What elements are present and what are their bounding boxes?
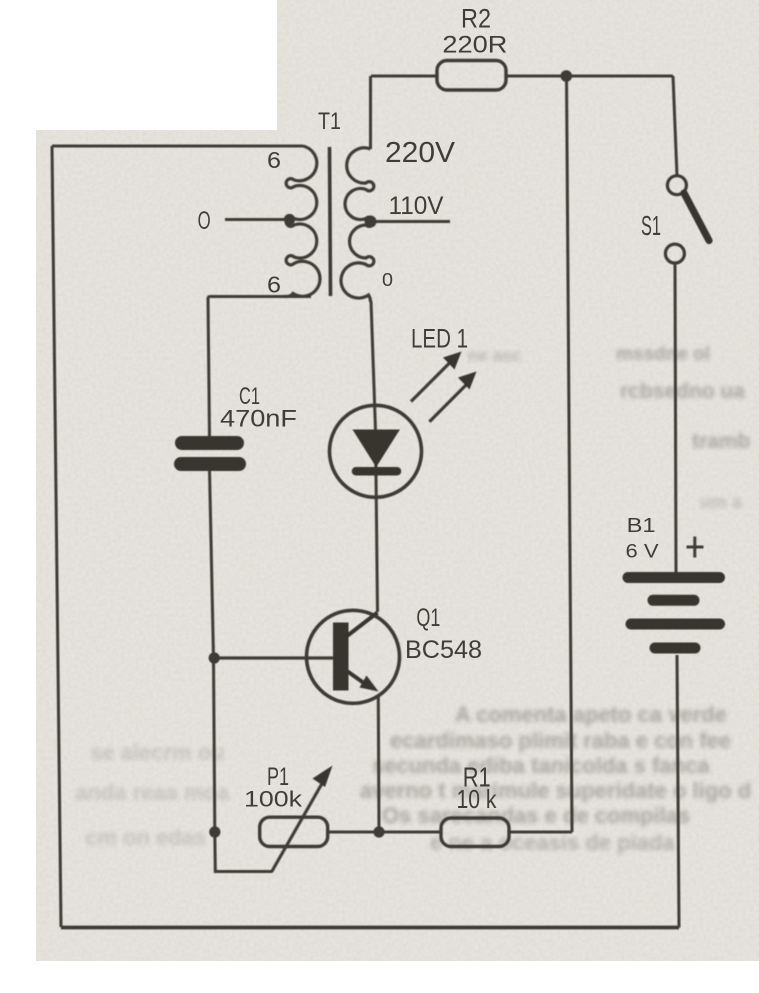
svg-text:6: 6 — [267, 272, 281, 298]
transistor Q1 collector stroke — [347, 613, 378, 637]
wire: P1 wiper return loop — [215, 832, 272, 872]
wire: outer loop left side — [52, 146, 61, 927]
switch S1 lever — [684, 193, 709, 241]
wire: node B to R1 left lead — [379, 831, 441, 834]
battery B1 plate 1 (long +) — [628, 572, 720, 583]
svg-text:T1: T1 — [318, 108, 341, 135]
resistor R1 body — [441, 818, 509, 847]
svg-text:Q1: Q1 — [416, 604, 440, 632]
svg-text:O: O — [198, 207, 211, 235]
transistor Q1 emitter stroke with arrow — [347, 671, 379, 692]
svg-text:A comenta apeto ca verde: A comenta apeto ca verde — [455, 702, 727, 727]
transformer T1 primary winding (left) — [284, 146, 320, 297]
svg-text:100k: 100k — [244, 787, 303, 812]
wire: T1 secondary bottom (0 tap) down through LED to Q1 collector — [371, 301, 378, 612]
svg-text:470nF: 470nF — [220, 406, 297, 433]
junction: base node dot — [209, 652, 220, 663]
wire: primary center tap 0 lead — [225, 218, 290, 221]
wire: R1 right lead to long vertical rail — [509, 831, 572, 834]
svg-text:anda reaa moa: anda reaa moa — [75, 780, 230, 805]
svg-text:rcbsedno ua: rcbsedno ua — [620, 380, 745, 403]
svg-text:220R: 220R — [442, 32, 507, 59]
svg-text:ne asc: ne asc — [468, 346, 521, 365]
transformer T1 core — [330, 147, 331, 296]
wire: secondary 110V tap lead — [369, 220, 450, 223]
wire: Q1 emitter down to bottom node B — [377, 697, 381, 832]
LED1 body circle — [330, 405, 422, 497]
switch S1 bottom contact — [665, 244, 684, 263]
junction: node B dot — [373, 826, 384, 837]
junction: secondary 110V tap dot — [365, 216, 377, 228]
resistor R2 body — [437, 61, 506, 91]
svg-text:tramb: tramb — [692, 430, 750, 453]
wire: outer loop bottom — [61, 926, 679, 930]
wire: long vertical rail from node A down to R1 — [567, 76, 573, 832]
svg-text:S1: S1 — [641, 210, 661, 241]
wire: top-right corner down to S1 top — [673, 76, 677, 176]
battery B1 plate 4 (short) — [655, 643, 695, 654]
battery B1 plate 2 (short) — [653, 595, 694, 606]
transistor Q1 base bar — [333, 623, 349, 691]
wire: base wire from left rail to Q1 base — [214, 656, 334, 659]
junction: primary center tap dot — [284, 214, 295, 225]
svg-text:0: 0 — [382, 270, 393, 290]
wire: R2 left lead — [371, 75, 437, 78]
svg-text:B1: B1 — [627, 515, 656, 537]
wire: battery bottom to bottom-right corner — [677, 655, 679, 928]
svg-text:e ne a oceasis de piada: e ne a oceasis de piada — [430, 830, 675, 855]
transistor Q1 body circle — [307, 610, 400, 703]
capacitor C1 plate 2 — [181, 457, 239, 471]
transformer T1 secondary winding (right) — [341, 148, 374, 302]
svg-text:um a: um a — [700, 492, 743, 512]
wire: C1 bottom to base junction to P1 junction (left rail) — [210, 470, 215, 832]
svg-text:6 V: 6 V — [626, 542, 659, 563]
wire: T1 primary bottom lead (6) to C1 branch — [208, 297, 311, 438]
LED1 triangle (anode) — [353, 430, 400, 468]
junction: node A dot — [561, 70, 573, 82]
junction: P1 left node dot — [209, 826, 220, 837]
battery B1 plate 3 (long) — [631, 619, 720, 630]
bleed-through text (back of page) — [75, 344, 751, 855]
battery B1 plus sign — [687, 537, 704, 558]
wire: down from R2 lead to T1 secondary top (220V tap) — [369, 76, 372, 149]
wire: R2 right lead to node A — [506, 75, 566, 78]
LED1 light arrow 1 — [411, 352, 462, 402]
svg-text:mssdne ol: mssdne ol — [616, 344, 710, 365]
svg-text:secunda ediba tanicolda s fanc: secunda ediba tanicolda s fanca — [372, 753, 710, 778]
svg-text:Os sarecandas e de compilas: Os sarecandas e de compilas — [382, 803, 690, 828]
wire: outer loop top-left lead to T1 primary top — [52, 145, 303, 148]
wire: top right horizontal from node A to corner — [566, 75, 673, 78]
svg-text:R2: R2 — [461, 4, 491, 34]
potentiometer P1 arrow — [272, 766, 333, 873]
svg-text:se alecrm ou: se alecrm ou — [90, 740, 225, 765]
svg-text:6: 6 — [267, 147, 281, 173]
capacitor C1 plate 1 — [182, 436, 237, 450]
LED1 light arrow 2 — [429, 372, 476, 422]
svg-text:BC548: BC548 — [405, 636, 482, 664]
svg-text:LED 1: LED 1 — [411, 324, 468, 354]
svg-text:10 k: 10 k — [457, 784, 498, 814]
LED1 cathode bar — [356, 467, 397, 476]
svg-text:cm on edas: cm on edas — [85, 825, 206, 850]
switch S1 top contact — [667, 176, 686, 195]
svg-text:110V: 110V — [389, 192, 444, 220]
wire: P1 right lead to node B — [328, 831, 379, 834]
svg-text:ecardimaso plimit raba e con f: ecardimaso plimit raba e con fee — [390, 728, 731, 753]
potentiometer P1 body — [260, 817, 328, 846]
wire: S1 bottom to battery top — [675, 263, 676, 572]
svg-text:220V: 220V — [385, 137, 456, 169]
svg-text:averno t marimule superidate o: averno t marimule superidate o ligo d — [360, 778, 751, 803]
